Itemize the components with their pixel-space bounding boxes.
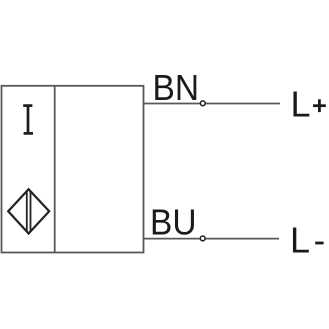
label L+ : plus sign — [313, 99, 326, 112]
terminal node on BN wire — [200, 101, 205, 106]
terminal node on BU wire — [200, 236, 205, 241]
current symbol I — [23, 106, 33, 134]
sensor body divider — [54, 86, 56, 253]
svg-text:BU: BU — [150, 202, 197, 243]
svg-text:L: L — [291, 84, 311, 125]
svg-text:BN: BN — [153, 67, 200, 108]
svg-text:L: L — [290, 220, 310, 261]
label L- : minus sign — [315, 242, 323, 245]
wire BN to L+ — [144, 103, 281, 105]
wire BU to L- — [144, 238, 280, 240]
sensor body outline U1 — [2, 86, 144, 253]
proximity switch symbol (diamond) — [8, 189, 49, 233]
